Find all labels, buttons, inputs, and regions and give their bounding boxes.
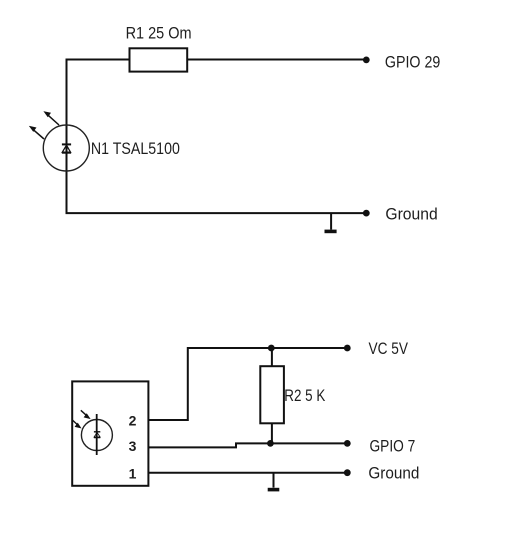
svg-text:VC 5V: VC 5V — [369, 340, 409, 358]
svg-text:R1 25 Om: R1 25 Om — [126, 25, 192, 43]
svg-text:3: 3 — [129, 438, 137, 454]
svg-text:GPIO 29: GPIO 29 — [385, 54, 440, 72]
svg-text:N1 TSAL5100: N1 TSAL5100 — [91, 140, 180, 158]
svg-text:Ground: Ground — [368, 465, 419, 483]
svg-text:1: 1 — [129, 465, 137, 481]
svg-text:2: 2 — [129, 412, 137, 428]
svg-text:Ground: Ground — [385, 206, 437, 224]
svg-text:GPIO 7: GPIO 7 — [370, 438, 416, 456]
svg-text:R2 5 K: R2 5 K — [284, 387, 325, 405]
